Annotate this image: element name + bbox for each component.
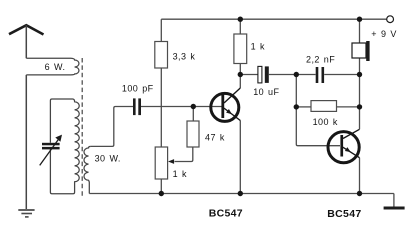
svg-text:3,3 k: 3,3 k — [173, 51, 196, 61]
svg-text:47 k: 47 k — [205, 133, 225, 143]
svg-text:100 pF: 100 pF — [122, 83, 154, 93]
svg-text:BC547: BC547 — [327, 208, 361, 220]
svg-text:1 k: 1 k — [173, 169, 187, 179]
svg-text:2,2 nF: 2,2 nF — [306, 54, 335, 64]
svg-text:BC547: BC547 — [209, 208, 243, 220]
svg-text:1 k: 1 k — [251, 41, 265, 51]
svg-text:+ 9 V: + 9 V — [371, 29, 397, 39]
svg-text:100 k: 100 k — [313, 117, 338, 127]
svg-text:6 W.: 6 W. — [45, 62, 66, 72]
svg-text:30 W.: 30 W. — [95, 154, 121, 164]
svg-text:10 uF: 10 uF — [253, 87, 279, 97]
